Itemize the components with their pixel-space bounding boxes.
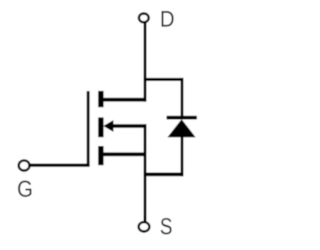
wire: source stub horizontal: [101, 152, 147, 156]
wire: diode branch vertical (bottom): [181, 136, 184, 176]
label S: [161, 218, 172, 234]
wire: body stub (arrow shaft): [107, 124, 147, 128]
wire: S terminal up to diode junction: [144, 216, 147, 223]
transistor Q1 drain bar: [98, 91, 103, 107]
wire: diode bottom horizontal: [144, 173, 184, 177]
transistor Q1 gate bar: [87, 91, 90, 166]
label G: [18, 181, 31, 197]
arrow head (points left to body bar): [103, 120, 113, 132]
terminal G (open circle): [19, 160, 30, 170]
label D: [162, 11, 174, 27]
wire: body corner down to S terminal: [144, 124, 147, 223]
transistor Q1 source bar: [98, 146, 103, 165]
terminal S (open circle): [139, 222, 150, 231]
transistor Q1 body bar: [98, 117, 103, 137]
diode D1 triangle (anode): [168, 119, 196, 137]
terminal D (open circle): [139, 14, 149, 23]
wire: diode branch vertical (top): [181, 78, 184, 118]
wire: gate horizontal from G terminal: [31, 164, 90, 167]
diode D1 cathode bar: [167, 116, 197, 120]
wire: branch to diode (top horizontal): [144, 78, 184, 81]
wire: drain stub horizontal: [101, 98, 147, 102]
wire: D terminal down to drain stub: [144, 23, 147, 102]
